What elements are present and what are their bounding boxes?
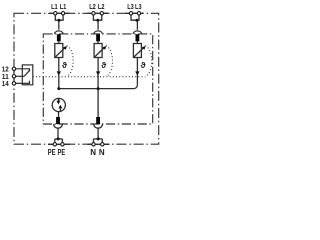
svg-text:ϑ: ϑ [62, 60, 67, 70]
svg-text:L1: L1 [60, 4, 67, 11]
svg-text:ϑ: ϑ [101, 60, 106, 70]
svg-text:ϑ: ϑ [141, 60, 146, 70]
svg-text:11: 11 [2, 74, 9, 81]
svg-text:N: N [90, 148, 96, 157]
svg-text:PE: PE [48, 148, 56, 157]
svg-text:12: 12 [2, 66, 9, 73]
svg-text:L3: L3 [127, 4, 134, 11]
svg-text:PE: PE [58, 148, 66, 157]
svg-text:L1: L1 [51, 4, 58, 11]
svg-text:N: N [99, 148, 105, 157]
svg-text:14: 14 [2, 81, 9, 88]
svg-text:L2: L2 [89, 4, 96, 11]
svg-text:L2: L2 [98, 4, 105, 11]
svg-text:L3: L3 [135, 4, 142, 11]
